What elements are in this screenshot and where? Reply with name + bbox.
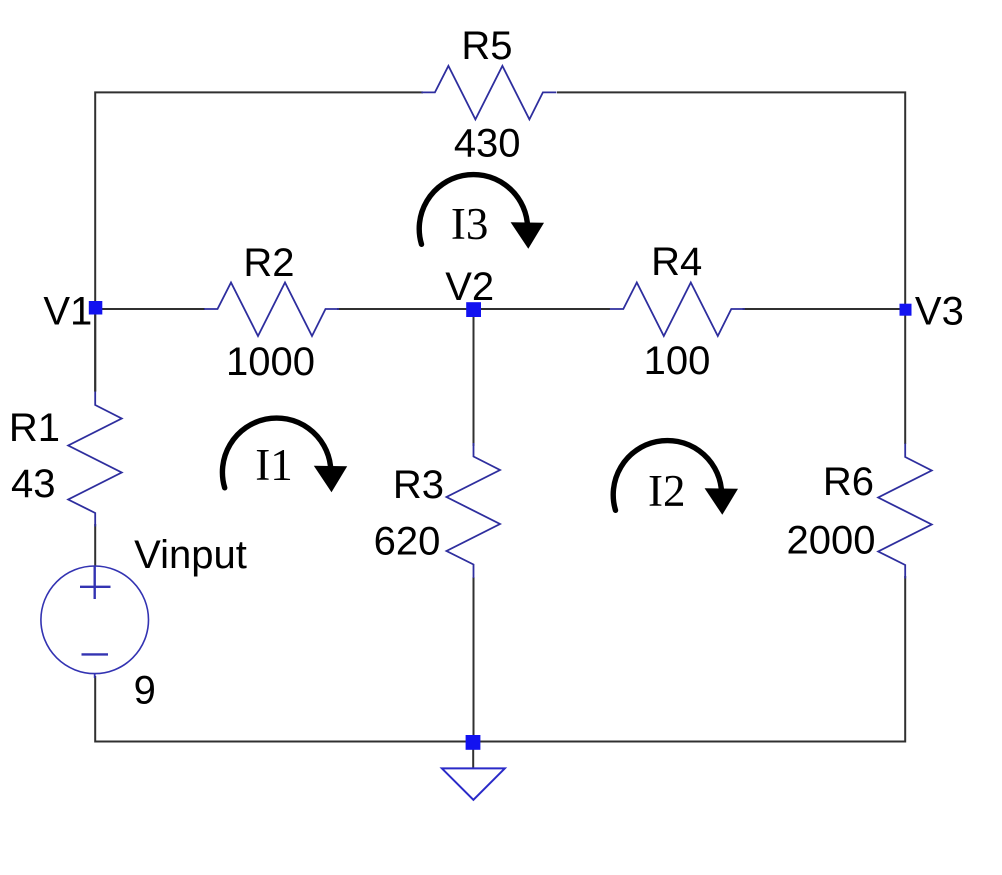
svg-text:V2: V2 xyxy=(445,265,494,309)
voltage source plus sign xyxy=(80,566,111,599)
mesh current arrow I3 arc xyxy=(419,175,527,245)
mesh current arrow I1 arc xyxy=(222,418,330,488)
resistor R3 xyxy=(447,443,501,578)
svg-text:I2: I2 xyxy=(648,466,686,516)
svg-text:Vinput: Vinput xyxy=(134,533,247,577)
mesh arrow I1 head xyxy=(314,466,347,493)
voltage source minus sign xyxy=(82,653,109,655)
svg-text:R2: R2 xyxy=(243,241,294,285)
svg-text:V1: V1 xyxy=(43,290,92,334)
mesh current arrow I2 arc xyxy=(613,441,721,511)
voltage source bottom stem xyxy=(94,674,96,679)
svg-text:1000: 1000 xyxy=(226,340,315,384)
svg-text:R5: R5 xyxy=(461,24,512,68)
wire left rail R1 to Vinput xyxy=(94,524,96,566)
svg-text:R4: R4 xyxy=(651,240,702,284)
node V1 square xyxy=(89,301,103,315)
svg-text:I3: I3 xyxy=(451,199,489,249)
node ground square xyxy=(466,735,481,750)
svg-text:V3: V3 xyxy=(915,289,964,333)
svg-text:R3: R3 xyxy=(393,463,444,507)
mesh arrow I2 head xyxy=(705,488,738,515)
svg-text:R1: R1 xyxy=(9,406,60,450)
node V2 square xyxy=(466,302,481,317)
wire center vertical R3 to bottom rail xyxy=(473,577,475,742)
resistor R2 xyxy=(204,283,339,337)
mesh arrow I3 head xyxy=(511,222,544,249)
wire middle rail R4 to V3 xyxy=(743,308,906,310)
ground symbol triangle xyxy=(442,768,505,799)
svg-text:620: 620 xyxy=(374,520,441,564)
wire middle rail R2 to R4 through V2 xyxy=(337,308,610,310)
wire left rail V1 to R1 xyxy=(94,309,96,392)
svg-text:I1: I1 xyxy=(255,440,293,490)
resistor R6 xyxy=(878,444,932,579)
svg-text:430: 430 xyxy=(454,122,521,166)
wire left rail + top rail left segment xyxy=(95,92,423,391)
svg-text:R6: R6 xyxy=(823,460,874,504)
svg-text:9: 9 xyxy=(134,669,156,713)
resistor R1 xyxy=(68,392,122,527)
node V3 square xyxy=(900,304,912,316)
wire right rail V3 to R6 xyxy=(904,310,906,445)
wire bottom rail with left and right risers xyxy=(95,576,905,742)
svg-text:43: 43 xyxy=(11,462,56,506)
voltage source Vinput circle xyxy=(41,566,149,674)
svg-text:100: 100 xyxy=(644,339,711,383)
ground stem wire xyxy=(472,742,474,768)
wire top rail right segment + right rail to V3 xyxy=(557,92,905,309)
resistor R4 xyxy=(610,283,745,337)
resistor R5 xyxy=(421,66,556,120)
wire center vertical V2 to R3 xyxy=(473,310,475,447)
svg-text:2000: 2000 xyxy=(787,519,876,563)
wire middle rail V1 to R2 xyxy=(95,308,205,310)
